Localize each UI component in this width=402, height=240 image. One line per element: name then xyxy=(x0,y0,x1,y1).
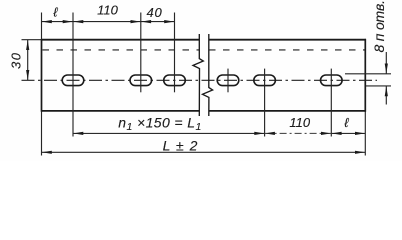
extension line: hole 3 centre xyxy=(174,13,176,93)
hole 2 xyxy=(130,75,152,86)
arrow right of dim L1 xyxy=(254,132,264,135)
extension line: hole 6 centre xyxy=(330,69,332,137)
bar bottom edge (right of break) xyxy=(209,110,366,112)
arrow left of dim 110 top xyxy=(73,20,83,23)
left 30-dim: top edge extension xyxy=(22,39,42,41)
extension line: bar left end above xyxy=(41,13,43,40)
centre tick: hole 4 xyxy=(227,69,229,93)
left 30-dim: upper arrow xyxy=(26,40,29,50)
hole 1 (obround slot) xyxy=(62,75,84,86)
arrow left of dim L xyxy=(42,151,52,154)
break line left (zigzag) xyxy=(193,34,203,116)
bar top edge (left of break) xyxy=(42,39,200,41)
svg-text:n1 ×150 = L1: n1 ×150 = L1 xyxy=(118,115,201,134)
svg-text:110: 110 xyxy=(289,115,310,130)
hidden dashed line (left of break) xyxy=(43,49,200,51)
arrow right of dim 110 top xyxy=(131,20,141,23)
hole 6 xyxy=(321,75,343,86)
right side: down arrow xyxy=(385,64,388,74)
extension line: hole 5 centre xyxy=(264,69,266,137)
top dimension line (l / 110 / 40 chain) xyxy=(42,21,175,23)
arrow left of dim 40 xyxy=(141,20,151,23)
arrow left of dim l xyxy=(42,20,52,23)
right side: lower dim line xyxy=(385,86,387,105)
extension line: bar left end below xyxy=(41,112,43,156)
hole 4 xyxy=(217,75,239,86)
hole 5 xyxy=(254,75,276,86)
svg-text:30: 30 xyxy=(9,52,24,69)
svg-text:40: 40 xyxy=(146,5,162,20)
arrow right of dim L xyxy=(355,151,365,154)
arrow left of dim l bottom xyxy=(332,132,342,135)
svg-text:L ± 2: L ± 2 xyxy=(163,138,199,154)
bar right edge xyxy=(364,39,366,112)
right side: hole-top extension line xyxy=(345,73,391,75)
bar left edge xyxy=(41,39,43,112)
arrow right of dim 40 xyxy=(164,20,174,23)
left 30-dim: vertical dimension line xyxy=(27,40,29,81)
break line right (zigzag) xyxy=(203,34,213,116)
bottom chain dimension line: l span xyxy=(331,132,365,134)
bar top edge (right of break) xyxy=(209,39,366,41)
extension line: bar right end below xyxy=(364,112,366,156)
overall length dimension line L+-2 xyxy=(42,151,366,153)
centre line (dash-dot chain through holes) xyxy=(22,79,378,81)
svg-text:ℓ: ℓ xyxy=(53,5,58,20)
arrow right of dim 110 bottom xyxy=(321,132,331,135)
right side: upper dim line xyxy=(385,52,387,74)
right side: hole-bottom extension line xyxy=(366,85,391,87)
svg-text:ℓ: ℓ xyxy=(344,115,349,130)
bar bottom edge (left of break) xyxy=(42,110,200,112)
extension line: hole 1 centre (full height) xyxy=(72,13,74,137)
svg-text:8 п отв.: 8 п отв. xyxy=(371,0,387,52)
hidden dashed line (right of break) xyxy=(209,49,365,51)
arrow left of dim L1 xyxy=(73,132,83,135)
extension line: hole 2 centre xyxy=(140,13,142,93)
svg-text:110: 110 xyxy=(97,3,118,18)
arrow right of dim l bottom xyxy=(355,132,365,135)
bottom chain dimension line: L1 span xyxy=(73,132,265,134)
hole 3 xyxy=(164,75,186,86)
right side: up arrow xyxy=(385,86,388,96)
left 30-dim: lower arrow xyxy=(26,70,29,80)
bottom chain dimension line: 110 span (faint dash-dot) xyxy=(265,132,332,134)
arrow left of dim 110 bottom xyxy=(265,132,275,135)
arrow right of dim l xyxy=(63,20,73,23)
